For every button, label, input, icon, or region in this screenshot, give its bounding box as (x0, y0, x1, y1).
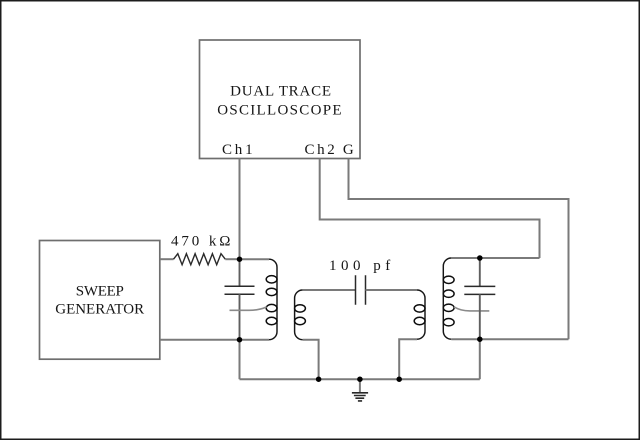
capacitor C1 top lead (239, 259, 241, 286)
wire T1 primary top lead (240, 258, 270, 260)
capacitor C1 plates (225, 286, 255, 294)
wire node B down to ground bus (239, 340, 241, 380)
T1 primary tap (230, 307, 267, 310)
wire T1 secondary bottom lead (303, 340, 319, 380)
transformer T1 primary winding (269, 259, 277, 340)
sweep generator box (40, 241, 160, 360)
wire T2 primary bottom lead (399, 339, 417, 379)
transformer T1 secondary winding (295, 290, 303, 340)
wire C2 to T2 primary top (366, 289, 418, 291)
wire Ch1 to node A (239, 159, 241, 260)
svg-text:DUAL TRACE: DUAL TRACE (230, 84, 332, 100)
capacitor C3 plates (464, 286, 495, 294)
wire bottom right to node D (480, 338, 569, 340)
svg-text:OSCILLOSCOPE: OSCILLOSCOPE (217, 103, 343, 119)
wire sweep generator to resistor (160, 258, 174, 260)
transformer T2 primary winding (417, 290, 425, 339)
junction on bus T1 secondary (316, 376, 322, 382)
wire T2 top lead to Ch2 drop (451, 257, 539, 259)
wire resistor to node A (225, 258, 239, 260)
junction node D (477, 336, 483, 342)
svg-text:G: G (343, 142, 354, 158)
capacitor C1 bottom lead (239, 294, 241, 339)
wire node D down to ground bus (479, 339, 481, 379)
junction node B (237, 337, 243, 343)
T2 secondary tap (454, 307, 489, 311)
svg-text:Ch2: Ch2 (305, 142, 338, 158)
svg-text:GENERATOR: GENERATOR (55, 302, 144, 318)
oscilloscope U1 box (200, 40, 361, 159)
svg-text:Ch1: Ch1 (222, 142, 255, 158)
capacitor C3 bottom lead (479, 294, 481, 339)
transformer T2 secondary winding (443, 258, 451, 339)
svg-text:SWEEP: SWEEP (76, 283, 124, 299)
svg-text:470 kΩ: 470 kΩ (171, 234, 233, 250)
junction node C (477, 255, 483, 261)
wire sweep generator bottom to node B (160, 339, 240, 341)
resistor 470k zigzag (174, 254, 226, 265)
wire T2 secondary bottom lead (451, 338, 480, 340)
junction at ground (357, 376, 363, 382)
ground symbol (359, 379, 361, 392)
wire G to bottom right (349, 159, 569, 340)
junction node A (237, 256, 243, 262)
ground bus wire (240, 378, 480, 380)
wire T1 secondary top to C2 (303, 289, 356, 291)
junction on bus T2 primary (396, 376, 402, 382)
wire T1 primary bottom lead (240, 339, 270, 341)
capacitor C3 top lead (479, 258, 481, 286)
svg-text:100 pf: 100 pf (329, 258, 395, 274)
wire Ch2 to T2 top (320, 159, 540, 259)
capacitor C2 100pf plates (356, 275, 366, 305)
